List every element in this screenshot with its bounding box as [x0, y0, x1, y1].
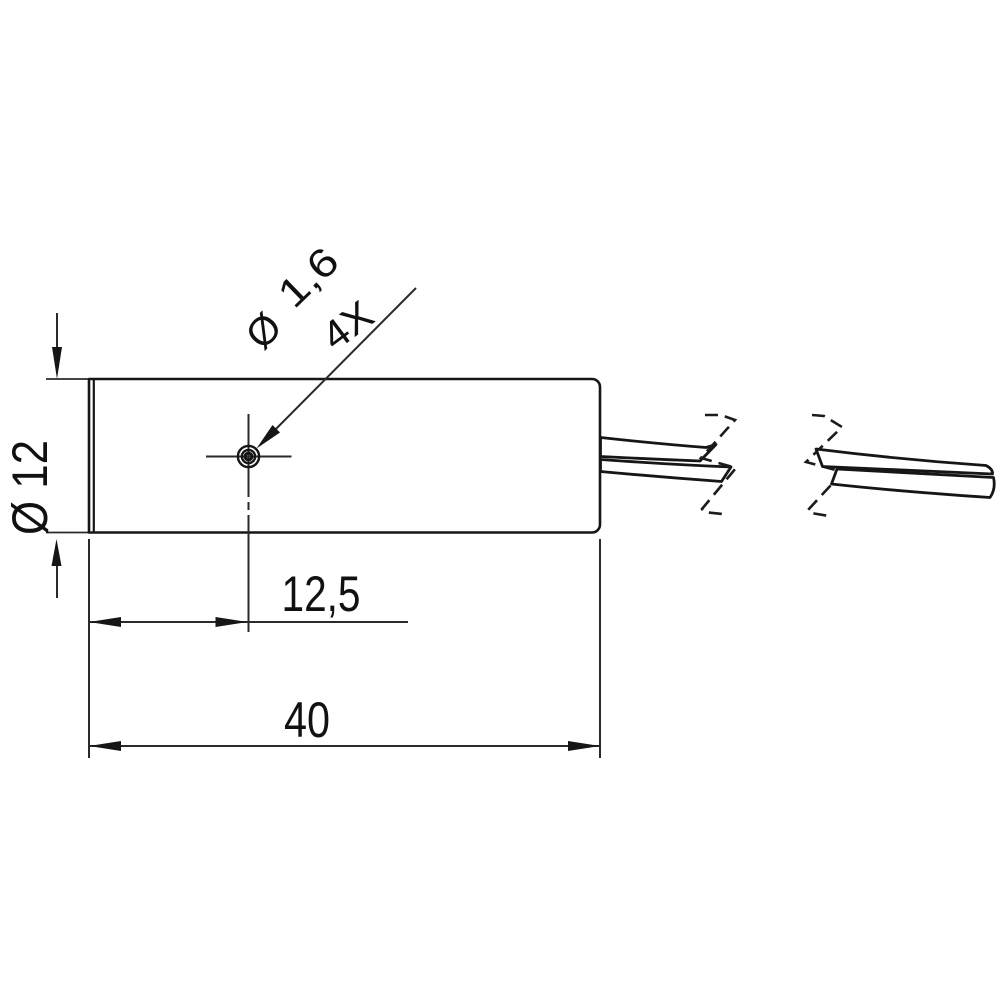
extension line right vertical — [599, 539, 601, 758]
hole center line vertical — [248, 414, 250, 497]
dimension line 12,5 — [89, 621, 408, 623]
svg-text:12,5: 12,5 — [282, 566, 361, 622]
break symbol (right) — [806, 415, 843, 516]
svg-text:Ø 12: Ø 12 — [2, 440, 58, 535]
body outline — [89, 379, 600, 533]
leader line — [262, 288, 416, 443]
dimension line 40 — [89, 745, 600, 747]
top extension line — [46, 378, 92, 380]
dimension arrow line below (Ø12 bottom) — [56, 565, 58, 598]
wires (right pair) — [816, 449, 993, 474]
hole center line horizontal — [206, 456, 292, 458]
wires (left pair) — [601, 438, 717, 462]
break symbol (left) — [701, 415, 736, 514]
extension line left vertical — [88, 539, 90, 758]
leader arrowhead — [257, 425, 281, 449]
hole Ø1.6 — [238, 446, 259, 467]
left cap inner line — [93, 380, 95, 532]
dimension arrow line above (Ø12 top) — [56, 313, 58, 350]
bottom extension line — [46, 532, 92, 534]
svg-text:40: 40 — [284, 692, 330, 748]
